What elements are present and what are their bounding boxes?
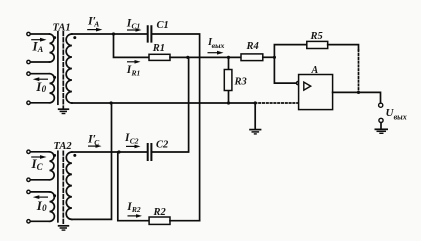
svg-text:вых: вых	[394, 113, 407, 122]
svg-text:R5: R5	[310, 31, 323, 42]
svg-text:TA1: TA1	[53, 22, 71, 33]
svg-text:TA2: TA2	[54, 141, 73, 152]
svg-text:C1: C1	[157, 20, 169, 31]
svg-text:R2: R2	[131, 205, 141, 214]
svg-text:0: 0	[42, 84, 47, 94]
svg-text:C: C	[37, 162, 44, 172]
svg-text:0: 0	[42, 203, 47, 213]
svg-text:C1: C1	[132, 22, 141, 31]
svg-text:вых: вых	[212, 41, 225, 50]
svg-text:A: A	[37, 44, 44, 54]
svg-text:R3: R3	[234, 76, 247, 87]
svg-text:C2: C2	[156, 140, 169, 151]
svg-text:A: A	[311, 65, 319, 76]
svg-text:R1: R1	[152, 43, 165, 54]
svg-text:C: C	[94, 138, 100, 147]
svg-text:R4: R4	[246, 41, 259, 52]
svg-text:A: A	[93, 20, 99, 29]
svg-text:R2: R2	[153, 207, 167, 218]
svg-text:R1: R1	[131, 68, 141, 77]
svg-text:C2: C2	[130, 137, 139, 146]
